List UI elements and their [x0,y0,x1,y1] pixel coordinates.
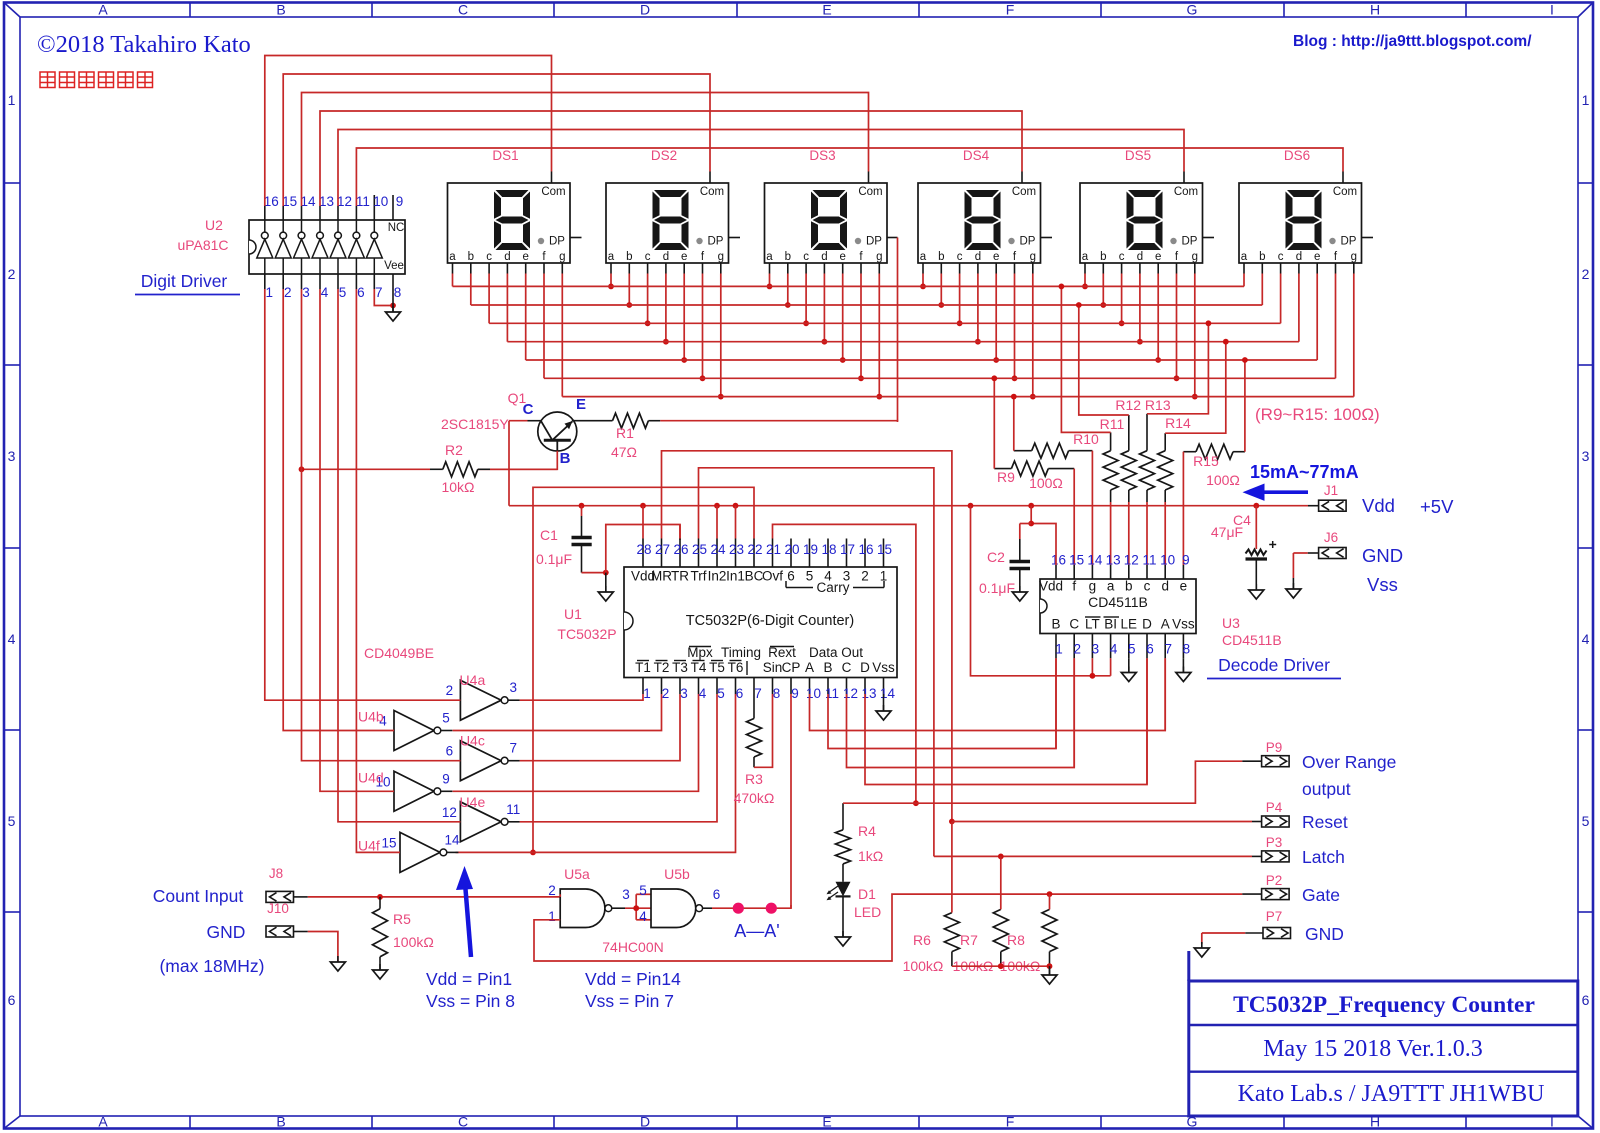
wire R2 to base [490,468,557,470]
DS5 Com pin wire [338,130,1184,207]
R5 ground [373,964,388,979]
wire U4f input [356,289,400,852]
svg-text:In2: In2 [708,569,727,584]
D1 labels [854,886,881,920]
U5b labels [639,866,720,924]
Q1 labels [441,390,586,467]
svg-text:CD4511B: CD4511B [1088,594,1148,610]
svg-text:3: 3 [680,686,688,701]
svg-text:b: b [1259,251,1265,263]
svg-text:A—A': A—A' [734,921,779,941]
U4d labels [358,769,450,789]
DS4 Com pin wire [320,111,1022,206]
connector J8 [266,866,294,902]
Reset label [1302,812,1348,832]
inverter U4d [394,771,452,811]
svg-text:7: 7 [1164,642,1172,657]
svg-text:B: B [276,2,285,18]
U1 pin12 C wire [847,658,1075,767]
svg-text:Vdd = Pin1: Vdd = Pin1 [426,969,512,989]
inverter U4c [460,741,519,781]
svg-text:100kΩ: 100kΩ [393,934,434,950]
U4e labels [442,794,520,820]
kanji notice (muda tensai kinshi) [40,72,153,88]
svg-text:7: 7 [375,285,383,300]
wire b-bus to R12 [1076,302,1129,415]
svg-text:15: 15 [877,542,892,557]
svg-text:Over Range: Over Range [1302,752,1396,772]
svg-text:BI: BI [1104,617,1117,632]
svg-text:D: D [640,2,650,18]
svg-text:6: 6 [8,992,16,1008]
svg-text:Carry: Carry [817,580,850,595]
svg-text:Vdd: Vdd [1362,495,1395,516]
svg-text:g: g [559,251,565,263]
U1 pin stubs and numbers [636,539,895,702]
svg-text:g: g [1351,251,1357,263]
svg-text:23: 23 [729,542,744,557]
R9 labels [997,469,1063,491]
svg-text:F: F [1006,2,1015,18]
svg-text:E: E [822,1114,831,1130]
DS5 segment pin wires [1082,263,1198,400]
wire R13 to U3 pin11 [1146,502,1148,565]
svg-text:C: C [1069,617,1079,632]
svg-text:25: 25 [692,542,707,557]
svg-text:2: 2 [861,569,869,584]
node A big dot [733,903,744,914]
IC U3 CD4511B decode driver [1039,579,1196,634]
svg-text:Vdd = Pin14: Vdd = Pin14 [585,969,681,989]
svg-text:6: 6 [736,686,744,701]
DS2 Com pin wire [283,74,710,206]
svg-text:DS2: DS2 [651,148,677,163]
capacitor C1 [572,506,592,573]
U1 pin24 In2 wire [716,506,718,539]
DS2 segment pin wires [608,263,724,400]
svg-text:©2018 Takahiro Kato: ©2018 Takahiro Kato [37,31,251,58]
svg-text:e: e [839,251,845,263]
svg-text:13: 13 [1106,553,1121,568]
svg-text:Vss = Pin 7: Vss = Pin 7 [585,991,674,1011]
svg-text:P4: P4 [1266,800,1283,815]
svg-text:D: D [640,1114,650,1130]
svg-text:P3: P3 [1266,835,1283,850]
svg-text:2: 2 [1073,642,1081,657]
R12 R13 label [1115,397,1170,413]
R7 labels [953,932,994,974]
svg-text:d: d [663,251,669,263]
D1 ground [836,896,851,946]
svg-text:CD4049BE: CD4049BE [364,645,434,661]
DS3 Com pin wire [302,93,869,207]
wire R14 to U3 pin10 [1164,502,1166,565]
resistor R4 [836,803,851,882]
svg-text:470kΩ: 470kΩ [734,790,775,806]
U1 pin13 D wire [865,658,1147,784]
svg-text:U4f: U4f [358,837,380,853]
svg-text:R8: R8 [1007,932,1025,948]
svg-text:R9: R9 [997,469,1015,485]
svg-text:d: d [504,251,510,263]
inverter U4a [460,680,519,720]
svg-text:13: 13 [319,194,334,209]
svg-text:C: C [523,401,534,418]
svg-text:P7: P7 [1266,909,1283,924]
svg-text:11: 11 [1142,553,1156,568]
R5 labels [393,911,434,950]
inverter U4f [400,832,458,872]
svg-text:R2: R2 [445,442,463,458]
R14 label [1165,415,1191,431]
C4 ground [1249,584,1264,599]
svg-text:27: 27 [655,542,670,557]
U1 pin25 Trf wire [699,468,934,857]
U4b labels [358,709,450,729]
svg-text:6: 6 [1582,992,1590,1008]
wire U4c input [302,289,461,761]
connector P3 [1262,835,1290,862]
NAND gate U5b [651,889,703,928]
U5a output wire [612,907,651,909]
svg-text:13: 13 [861,686,876,701]
svg-text:Vss: Vss [1172,617,1195,632]
DS6 segment pin wires [1244,263,1354,397]
svg-text:Vss: Vss [1367,574,1398,595]
DS3 label [809,148,835,163]
svg-text:15: 15 [1069,553,1084,568]
svg-text:1: 1 [643,686,651,701]
svg-text:3: 3 [509,680,517,695]
DS1 segment pin wires [453,263,563,397]
svg-text:d: d [821,251,827,263]
svg-text:b: b [1125,579,1133,594]
svg-text:R12 R13: R12 R13 [1115,397,1170,413]
R9-R15 note [1255,405,1380,424]
wire R1 to DS3 DP [660,421,897,422]
svg-text:R1: R1 [616,425,634,441]
svg-text:MR: MR [651,569,672,584]
connector P2 [1262,873,1290,900]
svg-text:U4e: U4e [460,794,486,810]
svg-text:22: 22 [747,542,762,557]
svg-text:0.1μF: 0.1μF [536,551,572,567]
svg-text:T5: T5 [709,660,725,675]
svg-text:TR: TR [671,569,689,584]
svg-text:14: 14 [880,686,896,701]
svg-text:P9: P9 [1266,740,1283,755]
svg-text:10kΩ: 10kΩ [441,479,474,495]
svg-text:I: I [1550,2,1554,18]
U4f labels [358,832,460,853]
NAND gate U5a [560,889,612,928]
CD4049BE label [364,645,434,661]
C2 labels [979,549,1015,596]
svg-text:T2: T2 [654,660,670,675]
svg-text:DS1: DS1 [492,148,518,163]
DS1 DP stub [570,237,582,239]
resistor R8 [1042,894,1057,966]
U5b output wire A-A' [703,905,791,908]
svg-text:9: 9 [396,194,404,209]
svg-text:LED: LED [854,904,881,920]
74HC00N label [602,939,663,955]
svg-text:DP: DP [866,236,882,248]
svg-text:Blog : http://ja9ttt.blogspot.: Blog : http://ja9ttt.blogspot.com/ [1293,33,1532,50]
svg-text:A: A [98,1114,108,1130]
svg-text:g: g [1030,251,1036,263]
svg-text:d: d [975,251,981,263]
svg-text:Com: Com [858,186,882,198]
svg-text:28: 28 [636,542,651,557]
svg-text:6: 6 [787,569,795,584]
U5a input1 wire to gate net [534,891,1242,961]
U2 pin7-8 wire [374,289,396,308]
svg-text:B: B [823,660,832,675]
svg-text:b: b [468,251,474,263]
svg-text:Count Input: Count Input [153,886,244,906]
resistor R3 [747,694,762,767]
wire R11 to U3 pin13 [1110,502,1112,565]
svg-text:a: a [766,251,773,263]
wire U1 T6 to U4 output [456,694,736,852]
wire U1 T1 to U4 output [520,694,643,700]
svg-text:DP: DP [1020,236,1036,248]
Count Input label [153,886,244,906]
R8 labels [1000,932,1041,974]
svg-text:DS6: DS6 [1284,148,1310,163]
svg-text:15: 15 [282,194,297,209]
svg-text:15mA~77mA: 15mA~77mA [1250,462,1359,482]
date version text [1263,1036,1483,1062]
resistor R15 [1183,444,1245,459]
svg-text:DS5: DS5 [1125,148,1151,163]
svg-text:4: 4 [699,686,707,701]
svg-text:U4a: U4a [460,672,486,688]
svg-text:74HC00N: 74HC00N [602,939,663,955]
svg-text:b: b [785,251,791,263]
wire C1 to ground node [582,570,609,576]
svg-text:10: 10 [373,194,388,209]
svg-text:P2: P2 [1266,873,1283,888]
wire U3 B to U1 [1055,658,1057,748]
svg-text:R3: R3 [745,771,763,787]
svg-text:f: f [1072,579,1076,594]
svg-text:5: 5 [339,285,347,300]
Over Range label [1302,752,1396,799]
R10 label [1073,431,1099,447]
U4a labels [446,672,517,698]
svg-text:NC: NC [388,222,405,234]
Vdd +5V labels [1362,495,1454,517]
svg-text:4: 4 [1582,631,1590,647]
svg-text:U5b: U5b [664,866,690,882]
svg-text:Com: Com [1333,186,1357,198]
R1 labels [611,425,637,460]
svg-text:g: g [718,251,724,263]
svg-text:T4: T4 [691,660,707,675]
svg-text:c: c [803,251,809,263]
U3 LE ground [1121,658,1136,681]
svg-text:2: 2 [548,883,556,898]
svg-text:R7: R7 [960,932,978,948]
Digit Driver label [135,271,240,295]
wire P7 to ground [1202,933,1263,944]
U1 pin14 Vss ground [876,694,891,720]
wire U3 C to U1 [1073,658,1075,767]
svg-text:GND: GND [1305,924,1344,944]
svg-text:8: 8 [1183,642,1191,657]
wire R12 to U3 pin12 [1128,502,1130,565]
svg-text:May 15 2018 Ver.1.0.3: May 15 2018 Ver.1.0.3 [1263,1036,1483,1062]
wire U4b input [283,289,394,731]
svg-text:e: e [522,251,528,263]
svg-text:4: 4 [8,631,16,647]
U2 pin8 ground [386,289,401,321]
svg-text:CD4511B: CD4511B [1222,632,1282,648]
svg-text:c: c [1278,251,1284,263]
blue arrow to U4f [456,866,473,957]
svg-text:U3: U3 [1222,615,1240,631]
svg-text:12: 12 [337,194,352,209]
wire R2 to T3 net [299,466,430,472]
U2 pin stubs [265,195,393,289]
IC U1 TC5032P 6-digit counter [624,567,897,678]
svg-text:In1: In1 [726,569,745,584]
svg-text:16: 16 [858,542,873,557]
P7 ground [1194,942,1209,957]
svg-text:R10: R10 [1073,431,1099,447]
svg-text:A: A [98,2,108,18]
svg-text:11: 11 [356,194,370,209]
wire R15 to U3 pin9 [1182,452,1184,565]
svg-text:10: 10 [806,686,821,701]
wire d-bus to R14 [1165,339,1229,433]
svg-text:3: 3 [302,285,310,300]
svg-text:C: C [842,660,852,675]
svg-text:4: 4 [1110,642,1118,657]
wire R6 R7 R8 bottoms [952,963,1053,969]
U1 pin9 CP wire to A' [790,694,792,908]
svg-text:(R9~R15: 100Ω): (R9~R15: 100Ω) [1255,405,1380,424]
Q1 emitter wire [572,420,613,422]
DS4 DP stub [1041,237,1053,239]
U3 labels [1222,615,1282,648]
svg-text:C: C [458,2,468,18]
wire R4 to P9 line [843,761,1242,803]
svg-text:Timing: Timing [721,645,761,660]
svg-text:CP: CP [782,660,801,675]
7-segment display DS4 [918,183,1041,263]
svg-text:16: 16 [264,194,279,209]
svg-text:TC5032P: TC5032P [557,626,616,642]
resistor R2 [430,462,490,477]
svg-text:b: b [626,251,632,263]
svg-text:+5V: +5V [1420,496,1454,517]
wire U4d input [320,289,394,791]
R2 labels [441,442,474,495]
7-segment display DS6 [1239,183,1362,263]
wire e-bus to R15 [1242,357,1248,452]
wire U3 Vdd jog [1028,506,1056,565]
wire R10 to U3 pin14 [1091,451,1093,565]
DS3 segment pin wires [767,263,883,400]
svg-text:D: D [860,660,870,675]
svg-text:T3: T3 [672,660,688,675]
DS5 label [1125,148,1151,163]
svg-text:12: 12 [442,805,457,820]
resistor R12 [1121,415,1136,502]
svg-text:1: 1 [8,92,16,108]
capacitor C2 [1010,524,1031,593]
svg-text:20: 20 [784,542,799,557]
svg-text:R11: R11 [1100,416,1125,432]
svg-text:11: 11 [506,802,520,817]
svg-text:1: 1 [548,909,556,924]
wire C2 top [1020,523,1031,525]
svg-text:2: 2 [662,686,670,701]
title block box [1189,951,1578,1116]
title text [1233,992,1535,1018]
svg-text:5: 5 [1128,642,1136,657]
svg-text:Kato Lab.s / JA9TTT JH1WBU: Kato Lab.s / JA9TTT JH1WBU [1238,1081,1545,1107]
svg-text:12: 12 [843,686,858,701]
connector P7 [1263,909,1291,939]
resistor R6 [944,822,959,967]
Gate label [1302,885,1340,905]
wire P4 reset [952,821,1262,823]
svg-text:7: 7 [754,686,762,701]
svg-text:Com: Com [541,186,565,198]
resistor R7 [993,856,1008,966]
resistor R5 [373,897,388,970]
svg-text:T1: T1 [635,660,651,675]
wire +5V from Q1 C [508,421,510,506]
DS6 DP stub [1362,237,1374,239]
svg-text:R6: R6 [913,932,931,948]
svg-text:8: 8 [773,686,781,701]
svg-text:d: d [1296,251,1302,263]
svg-text:5: 5 [639,883,647,898]
svg-text:Decode Driver: Decode Driver [1218,655,1330,675]
wire a-bus to R11 [1059,284,1111,433]
svg-text:c: c [1144,579,1151,594]
svg-text:g: g [1192,251,1198,263]
svg-text:TC5032P_Frequency Counter: TC5032P_Frequency Counter [1233,992,1535,1018]
svg-text:g: g [876,251,882,263]
DS6 label [1284,148,1310,163]
svg-text:BC: BC [745,569,764,584]
svg-text:Trf: Trf [691,569,707,584]
connector P9 [1242,740,1289,767]
svg-text:R4: R4 [858,823,876,839]
svg-text:D: D [1142,617,1152,632]
svg-text:E: E [822,2,831,18]
wire TR to ground node [606,525,680,573]
svg-text:Vss: Vss [872,660,895,675]
current note [1250,462,1359,482]
svg-text:47Ω: 47Ω [611,444,637,460]
svg-text:G: G [1187,2,1198,18]
Vdd Pin14 note [585,969,681,1011]
svg-text:Rext: Rext [768,645,796,660]
copyright text [37,31,251,58]
svg-text:3: 3 [1582,448,1590,464]
svg-text:LE: LE [1121,617,1138,632]
DS2 label [651,148,677,163]
svg-text:U1: U1 [564,606,582,622]
svg-text:e: e [1155,251,1161,263]
